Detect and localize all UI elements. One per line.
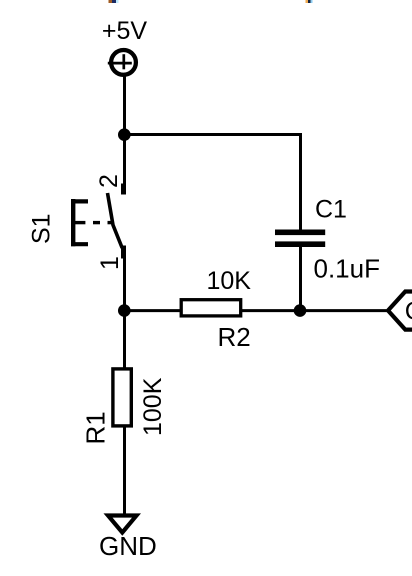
ground symbol bbox=[108, 516, 137, 533]
wire node B to R1 bbox=[123, 311, 126, 368]
svg-text:S1: S1 bbox=[28, 213, 56, 244]
svg-text:100K: 100K bbox=[139, 377, 167, 436]
svg-text:R2: R2 bbox=[218, 322, 251, 352]
switch S1 actuator bracket bbox=[71, 199, 88, 246]
power symbol +5V bbox=[108, 50, 136, 75]
cropped text remnant top-right bbox=[306, 0, 309, 3]
switch S1 blade bbox=[108, 193, 123, 248]
svg-text:C: C bbox=[405, 298, 412, 326]
wire node A to C1 top (horizontal) bbox=[124, 133, 302, 136]
node A junction bbox=[118, 128, 131, 141]
node C junction bbox=[294, 304, 307, 317]
svg-text:0.1uF: 0.1uF bbox=[314, 254, 381, 284]
resistor R1 body bbox=[113, 369, 131, 426]
svg-text:R1: R1 bbox=[81, 411, 111, 444]
wire node B to R2 bbox=[124, 309, 181, 312]
resistor R2 body bbox=[181, 300, 241, 316]
svg-text:+5V: +5V bbox=[102, 17, 148, 45]
svg-text:2: 2 bbox=[95, 174, 123, 188]
svg-text:GND: GND bbox=[99, 531, 157, 561]
svg-text:1: 1 bbox=[96, 256, 124, 270]
cropped text remnant top-left bbox=[109, 0, 119, 3]
output port connector bbox=[388, 292, 412, 330]
wire C1 branch (vertical down to capacitor) bbox=[299, 133, 302, 230]
node B junction bbox=[118, 304, 131, 317]
wire R1 to ground bbox=[123, 426, 126, 514]
switch S1 pin 1 bbox=[124, 246, 125, 311]
wire C1 bottom to node C bbox=[299, 246, 302, 311]
wire R2 to node C and connector bbox=[241, 309, 389, 312]
wire power to node A bbox=[123, 75, 126, 135]
switch S1 actuator dashed link bbox=[71, 221, 114, 224]
svg-text:C1: C1 bbox=[315, 196, 347, 224]
switch S1 pin 2 bbox=[124, 135, 125, 195]
capacitor C1 plates bbox=[275, 230, 325, 248]
svg-text:10K: 10K bbox=[207, 267, 252, 295]
